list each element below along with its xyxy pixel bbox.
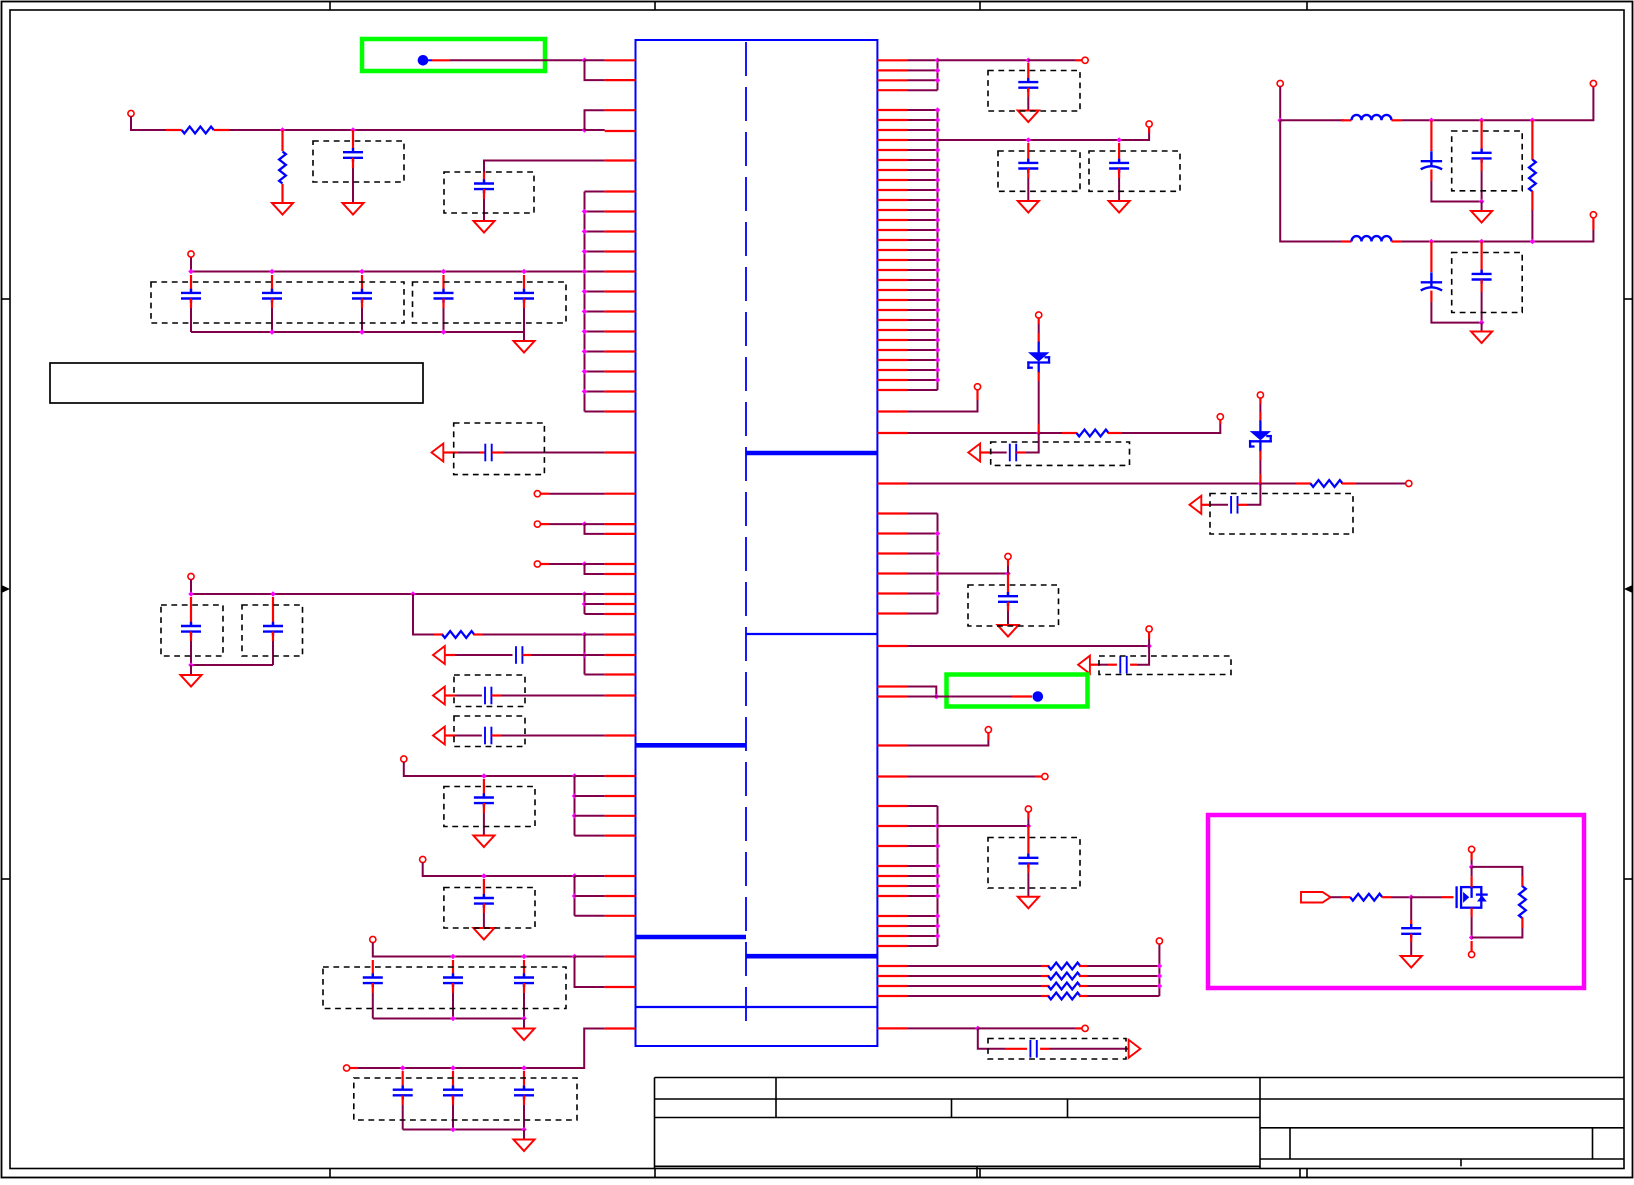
dashed outline C10 [242,605,303,656]
wire [1470,852,1472,860]
pin right [877,309,907,311]
dashed outline C27 [968,585,1059,626]
wire [978,1028,1005,1048]
junction [1479,199,1485,205]
wire [585,251,605,253]
wire [1480,120,1482,131]
capacitor C13 [485,727,491,745]
pin left [605,210,636,212]
IC U1 section bar [746,451,877,456]
wire [1341,119,1352,121]
pin left [605,533,636,535]
dashed outline C1 [313,141,404,182]
wire [908,349,938,351]
capacitor C28 [1120,656,1126,674]
junction [572,873,578,879]
junction [935,58,941,64]
wire [1027,63,1029,82]
junction [935,127,941,133]
pin right [877,179,907,181]
wire [1137,646,1149,665]
wire [372,993,374,1019]
wire [908,59,938,61]
wire [1049,1048,1128,1050]
net arrow [433,727,445,745]
wire [452,1071,454,1090]
wire [1035,775,1042,777]
wire [1038,318,1040,324]
wire [1122,424,1220,433]
pin right [877,329,907,331]
wire [191,580,585,595]
pin left [605,654,636,656]
wire [1027,819,1029,827]
wire [352,168,354,203]
wire [908,845,938,847]
wire [908,432,1039,434]
wire [483,779,485,798]
pin left [605,250,636,252]
wire [908,219,938,221]
wire [361,308,363,332]
wire [1062,432,1077,434]
pin left [605,290,636,292]
pin right [877,299,907,301]
wire [1148,127,1150,133]
wire [483,904,485,914]
wire [1410,942,1412,956]
capacitor C22 [1018,78,1038,92]
wire [1470,908,1472,917]
junction [935,923,941,929]
wire [1027,169,1029,179]
wire [908,329,938,331]
junction [400,1065,406,1071]
net arrow [1078,656,1090,674]
pin left [605,230,636,232]
net arrow [1129,1040,1141,1058]
junction [935,78,941,84]
polarized capacitor C31 [1421,151,1442,169]
junction [935,873,941,879]
ground [1471,211,1492,223]
wire [1259,412,1261,422]
capacitor C18 [514,973,534,987]
dashed outline C25 [991,442,1130,465]
pin right [877,775,907,777]
wire [585,191,605,193]
callout green box [362,39,545,71]
wire [1471,867,1473,876]
wire [585,371,605,373]
junction [935,267,941,273]
terminal [1469,846,1475,852]
wire [1471,917,1473,938]
wire [166,129,182,131]
junction [1277,118,1283,124]
junction [450,1016,456,1022]
terminal [1590,212,1596,218]
pin right [877,319,907,321]
pin left [605,895,636,897]
pin right [877,219,907,221]
wire [540,523,549,525]
pin right [877,532,907,534]
junction [188,662,194,668]
wire [1005,1048,1027,1050]
terminal [534,521,540,527]
wire [987,733,989,740]
junction [935,197,941,203]
junction [1530,118,1536,124]
pin right [877,895,907,897]
terminal [1082,57,1088,63]
wire [1470,941,1472,951]
ground [1018,111,1039,123]
resistor R3 [442,631,474,638]
wire [446,694,456,696]
terminal [1590,80,1596,86]
junction [935,347,941,353]
wire [1108,664,1117,666]
wire bottom bus [373,1018,524,1020]
junction [582,601,588,607]
wire [585,654,605,656]
dashed outline C24 [1089,151,1180,191]
resistor R8 [1048,983,1080,990]
junction [935,277,941,283]
capacitor C3 [181,289,201,303]
junction [582,349,588,355]
pin left [605,795,636,797]
terminal [1042,773,1048,779]
pin right [877,695,907,697]
callout magenta box [1208,815,1584,988]
wire [1130,664,1137,666]
wire [1280,120,1344,241]
ground [514,341,535,353]
pin right [877,89,907,91]
junction [935,107,941,113]
wire [1430,242,1432,273]
wire [908,69,938,71]
wire [402,1096,404,1106]
junction [572,893,578,899]
dashed outline C19-C21 [354,1078,577,1120]
pin right [877,915,907,917]
junction [935,157,941,163]
wire [1471,860,1473,867]
dashed outline C28 [1099,656,1231,675]
wire [1038,324,1040,333]
wire [908,289,938,291]
pin right [877,805,907,807]
wire [1088,975,1160,977]
wire [908,925,938,927]
wire [452,960,454,978]
dashed outline C9 [161,605,223,656]
wire [1219,420,1221,424]
wire [908,687,937,697]
junction [359,329,365,335]
junction [521,1065,527,1071]
junction [521,1016,527,1022]
wire bus [584,594,586,614]
terminal [188,573,194,579]
pin left [605,915,636,917]
wire [1431,181,1481,202]
wire [1027,863,1029,873]
wire [908,109,938,111]
blue dot test point [418,55,429,66]
junction [481,873,487,879]
junction [1146,643,1152,649]
wire [1088,965,1160,967]
wire [450,59,585,61]
junction [935,227,941,233]
junction [935,551,941,557]
wire [523,299,525,309]
capacitor C19 [393,1086,413,1100]
terminal [1217,414,1223,420]
wire [443,308,445,332]
wire [358,1029,605,1069]
wire [352,130,354,149]
wire [908,740,989,746]
terminal [344,1065,350,1071]
wire [455,654,513,656]
pin left [605,523,636,525]
wire [1148,633,1150,639]
junction [1157,973,1163,979]
wire [428,59,432,61]
wire bus [574,776,576,836]
pin right [877,349,907,351]
wire [908,89,938,91]
junction [270,591,276,597]
wire [1480,280,1482,293]
wire [585,351,605,353]
terminal [128,110,134,116]
resistor R4 [1077,430,1109,437]
pin right [877,169,907,171]
wire [585,564,605,574]
capacitor C6 [434,289,454,303]
pin right [877,109,907,111]
wire [1331,896,1342,898]
junction [1429,239,1435,245]
pin left [605,593,636,595]
wire [575,956,605,958]
wire [908,985,1042,987]
wire [483,803,485,813]
wire [1260,483,1296,485]
wire [1480,242,1482,253]
pin left [605,270,636,272]
junction [582,229,588,235]
inductor L1 [1352,115,1392,120]
wire [1108,432,1122,434]
wire [432,59,450,61]
wire [442,299,444,309]
wire [361,275,363,293]
wire [446,734,456,736]
wire [1027,143,1029,163]
junction [572,813,578,819]
wire [1431,302,1481,323]
junction [521,1127,527,1133]
dashed outline C23 [998,151,1080,191]
terminal [188,251,194,257]
terminal [1406,480,1412,486]
wire bottom bus [191,331,524,333]
pin right [877,945,907,947]
wire [908,239,938,241]
pin left [605,573,636,575]
wire [281,130,283,151]
wire [1202,504,1211,506]
wire [1211,504,1228,506]
wire bottom bus [403,1129,524,1131]
pin right [877,985,907,987]
wire [452,983,454,993]
wire [229,129,585,131]
ground [514,1029,535,1041]
junction [582,209,588,215]
terminal [1025,806,1031,812]
pin right [877,592,907,594]
wire [444,451,458,453]
IC U1 section line [636,1006,878,1008]
wire [1410,897,1412,920]
wire [575,875,605,877]
wire [908,915,938,917]
wire [1012,695,1032,697]
wire [908,149,938,151]
dashed outline C30 [988,1039,1126,1060]
junction [1479,239,1485,245]
junction [521,269,527,275]
wire [523,332,525,341]
wire [981,451,990,453]
wire [1079,985,1088,987]
wire [1341,896,1351,898]
wire [908,400,978,412]
junction [582,521,588,527]
ground [272,203,293,215]
wire [483,634,585,636]
junction [934,694,940,700]
wire bus [937,806,939,946]
junction [450,1127,456,1133]
junction [935,247,941,253]
wire [190,641,192,665]
wire [191,258,585,272]
capacitor C30 [1030,1040,1036,1058]
wire [908,645,1150,647]
wire [455,735,482,737]
wire [908,249,938,251]
wire [585,331,605,333]
pin right [877,249,907,251]
wire [908,513,938,515]
IC U1 section bar [636,743,747,748]
pin right [877,359,907,361]
wire [908,613,938,615]
wire [908,825,938,827]
pin right [877,199,907,201]
wire [413,594,434,635]
pin left [605,694,636,696]
pin left [605,410,636,412]
pin right [877,259,907,261]
wire [1039,432,1062,434]
pin left [605,390,636,392]
capacitor C12 [485,687,491,705]
junction [1429,118,1435,124]
wire [523,1130,525,1140]
wire [549,493,605,495]
border centre arrow right [1628,588,1633,590]
capacitor C29 [1018,854,1038,868]
net arrow [433,687,445,705]
IC U1 section bar [746,954,877,959]
wire [585,59,605,61]
wire [575,795,605,797]
wire [908,483,1261,485]
zener diode D2 [1250,422,1271,451]
transistor Q1 (MOSFET) [1457,886,1488,908]
pin right [877,975,907,977]
wire [1480,158,1482,171]
wire [908,279,938,281]
terminal [401,756,407,762]
wire bus [584,635,586,675]
wire [523,1096,525,1106]
wire [190,299,192,309]
wire [1410,920,1412,928]
wire [1075,59,1082,61]
wire [908,696,937,698]
wire [585,129,605,131]
junction [582,289,588,295]
wire [1259,451,1261,460]
resistor R10 [1529,160,1536,192]
wire [908,593,938,595]
pin left [605,673,636,675]
wire [1521,876,1523,887]
wire [1238,504,1247,506]
net arrow [1190,496,1202,514]
wire [908,179,938,181]
pin right [877,995,907,997]
wire bus [937,60,939,90]
polarized capacitor C33 [1421,272,1442,290]
pin right [877,432,907,434]
wire [372,983,374,993]
pin right [877,289,907,291]
resistor R5 [1311,480,1343,487]
junction [935,217,941,223]
capacitor C4 [262,289,282,303]
junction [582,329,588,335]
junction [188,591,194,597]
wire [908,1027,978,1029]
capacitor C14 [474,793,494,807]
wire [131,117,166,131]
terminal [1277,80,1283,86]
wire [1079,965,1088,967]
